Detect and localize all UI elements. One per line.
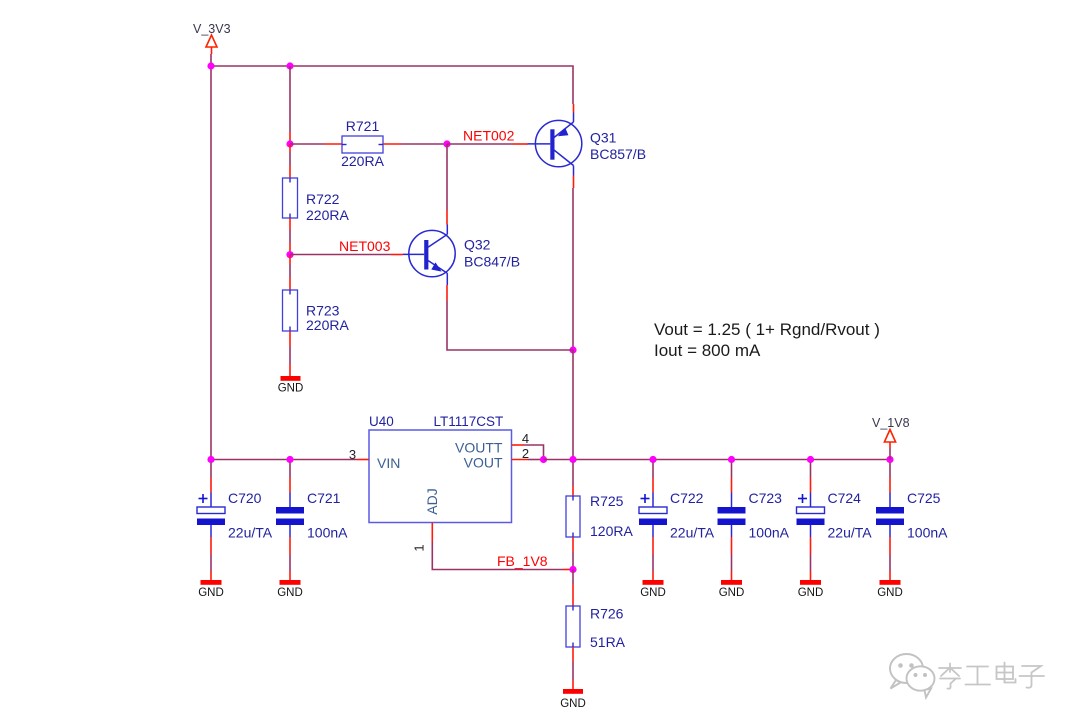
watermark text li (stroked CJK)	[939, 664, 961, 689]
svg-text:R722: R722	[306, 191, 340, 207]
svg-text:V_1V8: V_1V8	[872, 416, 910, 430]
svg-text:51RA: 51RA	[590, 634, 626, 650]
svg-text:FB_1V8: FB_1V8	[497, 553, 548, 569]
svg-text:1: 1	[412, 544, 427, 551]
svg-text:NET002: NET002	[463, 128, 515, 144]
wire R721 left lead	[290, 143, 342, 145]
svg-text:VOUT: VOUT	[464, 455, 503, 471]
svg-text:GND: GND	[560, 698, 586, 710]
capacitor C723	[718, 463, 746, 599]
wire R722 bottom lead to NET003	[289, 218, 291, 255]
watermark text dian (stroked CJK)	[997, 663, 1016, 683]
wire R726 bottom lead to ground	[572, 647, 574, 689]
node NET002 junction	[443, 140, 450, 147]
svg-text:22u/TA: 22u/TA	[670, 525, 715, 541]
node junction C721	[286, 456, 293, 463]
ground symbol below R723	[281, 376, 301, 381]
svg-text:220RA: 220RA	[306, 207, 349, 223]
svg-text:VOUTT: VOUTT	[455, 440, 503, 456]
wire branch down to R721/R722	[289, 66, 291, 144]
node junction top left	[207, 62, 214, 69]
capacitor C720	[197, 463, 225, 599]
watermark text zi (stroked CJK)	[1020, 666, 1045, 688]
svg-text:C723: C723	[749, 490, 783, 506]
transistor Q32 BC847/B (NPN)	[403, 225, 455, 286]
wire R726 top lead	[572, 570, 574, 607]
node junction R721/R722	[286, 140, 293, 147]
svg-text:R726: R726	[590, 606, 624, 622]
wire R725 top lead	[572, 463, 574, 496]
svg-text:Q31: Q31	[590, 130, 617, 146]
svg-text:Q32: Q32	[464, 237, 491, 253]
wire ADJ down to FB node	[432, 542, 563, 570]
wire R722 top lead	[289, 144, 291, 178]
capacitor C725	[876, 463, 904, 599]
svg-text:BC857/B: BC857/B	[590, 146, 646, 162]
capacitor C722	[639, 463, 667, 599]
pin Q31 collector red stub	[573, 176, 575, 189]
node junction FB_1V8	[569, 566, 576, 573]
node junction rail at V_1V8	[886, 456, 893, 463]
wire FB red stub	[563, 569, 573, 571]
svg-text:C725: C725	[907, 490, 941, 506]
power symbol V_3V3	[206, 35, 217, 54]
node junction C720	[207, 456, 214, 463]
op-amp regulator U40 LT1117CST body	[369, 430, 512, 523]
power symbol V_1V8	[884, 430, 895, 460]
capacitor C721	[276, 463, 304, 599]
wire left vertical rail V_3V3	[210, 54, 212, 460]
pin Q32 emitter red stub	[446, 285, 448, 301]
svg-text:4: 4	[522, 431, 529, 446]
svg-text:C722: C722	[670, 490, 704, 506]
svg-text:R721: R721	[346, 118, 380, 134]
watermark wechat logo	[890, 654, 935, 698]
svg-text:Vout = 1.25 ( 1+ Rgnd/Rvout ): Vout = 1.25 ( 1+ Rgnd/Rvout )	[654, 320, 880, 339]
pin Q31 emitter red stub	[573, 104, 575, 113]
svg-text:LT1117CST: LT1117CST	[434, 414, 504, 429]
ground symbol below R726	[563, 689, 583, 694]
wire R725 bottom lead to FB node	[572, 537, 574, 570]
svg-text:Iout = 800 mA: Iout = 800 mA	[654, 341, 761, 360]
wire NET003 to Q32 base	[290, 254, 403, 256]
svg-text:C724: C724	[828, 490, 862, 506]
svg-text:220RA: 220RA	[306, 317, 349, 333]
svg-text:120RA: 120RA	[590, 523, 633, 539]
node NET003 junction	[286, 251, 293, 258]
wire Q31 collector down	[572, 188, 574, 350]
capacitor C724	[797, 463, 825, 599]
svg-text:220RA: 220RA	[341, 153, 384, 169]
wire top rail horizontal	[211, 66, 573, 104]
resistor R726	[566, 606, 580, 647]
transistor Q31 BC857/B (PNP)	[528, 113, 582, 176]
svg-text:22u/TA: 22u/TA	[828, 525, 873, 541]
node junction rail at C724	[807, 456, 814, 463]
pin 3 red stub	[357, 459, 369, 461]
resistor R723	[283, 290, 298, 331]
resistor R725	[566, 496, 580, 537]
svg-text:22u/TA: 22u/TA	[228, 525, 273, 541]
svg-text:100nA: 100nA	[907, 525, 948, 541]
svg-text:100nA: 100nA	[749, 525, 790, 541]
svg-text:R725: R725	[590, 493, 624, 509]
svg-text:C721: C721	[307, 490, 341, 506]
wire NET002 to Q31 base	[447, 143, 528, 145]
resistor R721	[342, 136, 383, 153]
node junction pins 2/4	[540, 456, 547, 463]
svg-text:VIN: VIN	[377, 455, 400, 471]
pin Q32 collector red stub	[446, 210, 448, 225]
wire Q32 collector up to NET002	[446, 144, 448, 210]
svg-text:100nA: 100nA	[307, 525, 348, 541]
wire pin 4 hook down to pin 2	[524, 445, 544, 460]
svg-text:C720: C720	[228, 490, 262, 506]
wire R723 top lead	[289, 255, 291, 290]
node junction top branch	[286, 62, 293, 69]
node junction Q31 collector / Q32 emitter	[569, 346, 576, 353]
node junction rail at C722	[649, 456, 656, 463]
node junction rail at C723	[728, 456, 735, 463]
svg-text:NET003: NET003	[339, 238, 391, 254]
svg-text:U40: U40	[369, 414, 394, 429]
resistor R722	[283, 178, 298, 218]
wire down to output rail	[572, 350, 574, 460]
pin 4 red stub	[512, 444, 525, 446]
wire output rail	[544, 459, 891, 461]
node junction rail at R725	[569, 456, 576, 463]
pin 1 ADJ red stub	[431, 523, 433, 543]
wire R723 bottom lead to ground	[289, 331, 291, 376]
svg-text:ADJ: ADJ	[424, 488, 440, 514]
wire VIN rail from left column	[211, 459, 357, 461]
watermark text gong (stroked CJK)	[966, 667, 991, 685]
wire pin 2 to junction	[528, 459, 544, 461]
wire R721 right lead to node NET002	[383, 143, 447, 145]
pin 2 red stub	[512, 459, 529, 461]
svg-text:BC847/B: BC847/B	[464, 254, 520, 270]
svg-text:GND: GND	[278, 383, 304, 395]
wire Q32 emitter down and right	[447, 301, 573, 350]
